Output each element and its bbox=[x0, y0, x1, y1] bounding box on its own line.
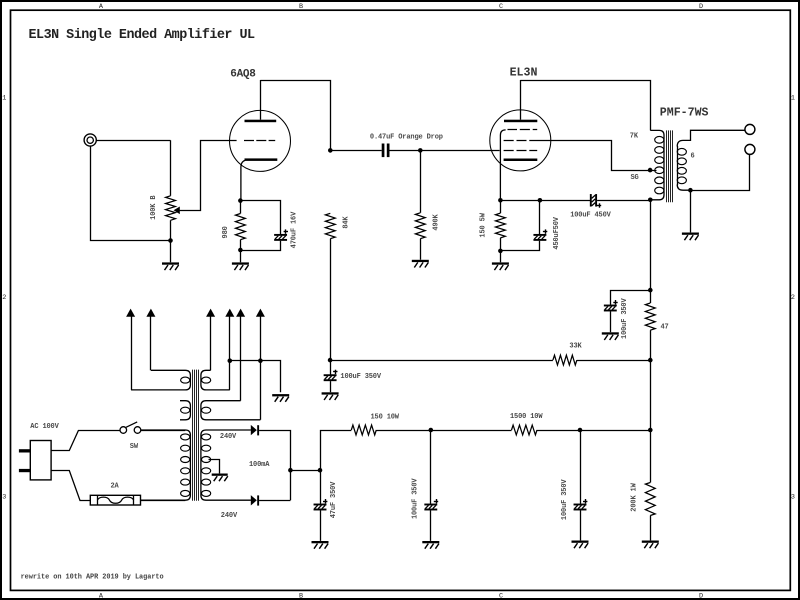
ground center tap bbox=[212, 474, 228, 476]
capacitor C9 0.47uF Orange Drop bbox=[382, 144, 385, 158]
T1 heater winding 2 left (unused stubs) bbox=[180, 401, 190, 420]
ground 490K bbox=[412, 260, 429, 262]
wire EL3N g2 to SG tap bbox=[537, 141, 657, 171]
svg-text:6: 6 bbox=[691, 153, 695, 161]
tube V2 EL3N envelope bbox=[490, 110, 551, 171]
6AQ8 plate bbox=[245, 120, 277, 123]
svg-text:D: D bbox=[699, 593, 703, 600]
wire fuse to T1 primary bottom bbox=[141, 500, 186, 502]
node filter node 3 bbox=[578, 428, 583, 433]
svg-text:D: D bbox=[699, 3, 703, 11]
svg-text:PMF-7WS: PMF-7WS bbox=[660, 106, 709, 119]
heater ground bus bbox=[230, 361, 281, 393]
wire D1 to rectifier node bbox=[259, 431, 290, 501]
svg-text:100uF 450V: 100uF 450V bbox=[570, 211, 611, 219]
resistor R7 33K bbox=[553, 355, 577, 365]
wire secondary bottom to jack bbox=[690, 155, 749, 191]
capacitor C2 450uF50V bbox=[539, 200, 541, 234]
capacitor C3 100uF 350V bbox=[604, 305, 617, 307]
svg-text:100uF 350V: 100uF 350V bbox=[340, 373, 381, 381]
node heater bus b bbox=[258, 358, 263, 363]
svg-text:6AQ8: 6AQ8 bbox=[230, 68, 256, 80]
node coupling junction left bbox=[328, 148, 333, 153]
resistor R2 980 bbox=[240, 201, 242, 214]
wire plug bottom lead to fuse bbox=[51, 471, 90, 501]
wire R9 to node 3 bbox=[537, 430, 650, 432]
svg-text:100K B: 100K B bbox=[150, 195, 158, 220]
svg-text:7K: 7K bbox=[630, 133, 639, 141]
node pot-bottom junction bbox=[168, 238, 173, 243]
node SG tap bbox=[648, 168, 653, 173]
svg-text:1500 10W: 1500 10W bbox=[510, 413, 543, 421]
svg-text:C: C bbox=[499, 593, 503, 600]
node primary bottom bbox=[648, 198, 653, 203]
wire 150 bottom to ground bbox=[500, 238, 502, 262]
svg-text:200K 1W: 200K 1W bbox=[631, 482, 639, 511]
svg-text:EL3N Single Ended Amplifier UL: EL3N Single Ended Amplifier UL bbox=[29, 28, 256, 43]
wire pot bottom to ground bbox=[170, 220, 172, 262]
node EL3N grid junction bbox=[418, 148, 423, 153]
capacitor C4 100uF 350V bbox=[330, 360, 332, 374]
svg-text:0.47uF Orange Drop: 0.47uF Orange Drop bbox=[370, 133, 443, 141]
wire 84K to B+ rail bbox=[330, 239, 332, 360]
ground EL3N cathode bbox=[492, 262, 509, 264]
wire jack to pot top bbox=[96, 140, 170, 142]
resistor R9 1500 10W bbox=[512, 425, 538, 435]
OPT secondary winding bbox=[677, 130, 745, 146]
potentiometer VR1 100K B bbox=[166, 196, 176, 221]
resistor R8 150 10W bbox=[351, 425, 376, 435]
EL3N g1 (dashed) bbox=[504, 150, 514, 152]
svg-text:1: 1 bbox=[2, 95, 6, 103]
capacitor C5 47uF 350V bbox=[320, 470, 322, 504]
T1 primary winding bbox=[141, 430, 191, 500]
HV center tap to ground bbox=[209, 460, 220, 474]
node first filter tap bbox=[318, 468, 323, 473]
heater lead A bbox=[150, 316, 152, 370]
ground heater bus bbox=[272, 394, 289, 396]
wire up to filter rail bbox=[321, 431, 352, 471]
switch SW bbox=[120, 427, 127, 434]
node 6AQ8 cathode junction bbox=[238, 198, 243, 203]
node 980 bottom junction bbox=[238, 248, 243, 253]
6AQ8 cathode lead bbox=[241, 160, 245, 200]
ground 6AQ8 cathode bbox=[232, 262, 249, 264]
resistor R5 150 5W bbox=[500, 200, 502, 213]
wire switch to T1 primary bbox=[141, 430, 185, 432]
resistor R4 490K grid leak bbox=[420, 150, 422, 212]
node rectifier output bbox=[288, 468, 293, 473]
wire grid node to EL3N g1 bbox=[420, 150, 499, 152]
power transformer core bbox=[192, 370, 194, 501]
svg-text:C: C bbox=[499, 3, 503, 11]
output jack bottom bbox=[745, 144, 755, 154]
svg-text:490K: 490K bbox=[433, 213, 441, 230]
wire 6AQ8 plate to coupling junction bbox=[260, 81, 330, 151]
wire jack down to pot bottom junction bbox=[91, 146, 171, 240]
wire to coupling cap bbox=[330, 150, 381, 152]
wire 47 to B+ node bbox=[650, 330, 652, 360]
T1 heater winding 1 right bbox=[201, 370, 230, 390]
tube V1 6AQ8 envelope bbox=[230, 110, 291, 171]
input jack J1 bbox=[84, 134, 96, 146]
wire 980 bottom to ground bbox=[240, 240, 242, 263]
svg-text:EL3N: EL3N bbox=[510, 67, 538, 80]
svg-text:SW: SW bbox=[130, 443, 139, 451]
wire to decoupling cap C3 bbox=[611, 291, 651, 305]
svg-text:470uF 16V: 470uF 16V bbox=[291, 211, 299, 248]
EL3N cathode bbox=[504, 159, 538, 162]
svg-text:150 5W: 150 5W bbox=[479, 212, 487, 237]
ground bleeder bbox=[642, 541, 659, 543]
node 450uF tap bbox=[538, 198, 543, 203]
wire cathode rail to bypass cap bbox=[500, 200, 590, 202]
node 150 bottom junction bbox=[498, 249, 503, 254]
pot wiper arrow bbox=[174, 207, 180, 215]
node driver B+ junction bbox=[328, 358, 333, 363]
svg-text:450uF50V: 450uF50V bbox=[553, 216, 561, 249]
diode D1 bbox=[251, 425, 257, 435]
svg-text:AC 100V: AC 100V bbox=[30, 423, 59, 431]
wire OPT primary bottom down bbox=[650, 200, 652, 303]
svg-text:84K: 84K bbox=[343, 216, 351, 229]
ground input bbox=[162, 262, 179, 264]
resistor R6 47 bbox=[645, 303, 655, 330]
svg-text:2: 2 bbox=[791, 294, 795, 302]
ground C3 bbox=[602, 332, 619, 334]
heater lead F bbox=[260, 316, 262, 419]
svg-text:150 10W: 150 10W bbox=[371, 414, 400, 422]
svg-text:SG: SG bbox=[631, 174, 639, 182]
svg-text:B: B bbox=[299, 3, 303, 11]
T1 HV secondary winding bbox=[201, 430, 251, 500]
wire coupling cap to grid node bbox=[390, 150, 421, 152]
ground C7 bbox=[572, 541, 589, 543]
svg-text:100uF 350V: 100uF 350V bbox=[411, 478, 419, 519]
resistor R10 200K 1W bleeder bbox=[650, 430, 652, 483]
svg-text:2: 2 bbox=[2, 294, 6, 302]
6AQ8 cathode bbox=[245, 158, 278, 161]
svg-text:100uF 350V: 100uF 350V bbox=[561, 479, 569, 520]
svg-text:33K: 33K bbox=[569, 342, 582, 350]
svg-text:47: 47 bbox=[661, 323, 669, 331]
svg-text:3: 3 bbox=[2, 494, 6, 502]
heater lead D bbox=[229, 316, 231, 390]
EL3N plate bbox=[504, 120, 537, 123]
svg-text:240V: 240V bbox=[221, 512, 238, 520]
node B+ junction bbox=[648, 358, 653, 363]
svg-text:980: 980 bbox=[222, 226, 230, 238]
svg-text:47uF 350V: 47uF 350V bbox=[330, 481, 338, 518]
6AQ8 grid (dashed) bbox=[244, 140, 254, 142]
wire rectifier to first filter bbox=[290, 470, 320, 472]
EL3N g3 (dashed) bbox=[508, 129, 518, 131]
node heater bus a bbox=[228, 358, 233, 363]
svg-text:240V: 240V bbox=[220, 433, 237, 441]
wire R8 to node bbox=[376, 430, 511, 432]
wire to bypass cap C1 bbox=[240, 201, 280, 235]
resistor R3 84K bbox=[325, 213, 335, 238]
heater lead C bbox=[210, 316, 212, 370]
T1 heater winding 1 left bbox=[131, 370, 190, 390]
heater lead B bbox=[131, 316, 133, 390]
ground C5 bbox=[312, 541, 329, 543]
OPT primary winding bbox=[650, 130, 664, 199]
EL3N g3-cathode tie and cathode lead bbox=[500, 130, 505, 200]
ground OPT secondary bbox=[682, 233, 699, 235]
node EL3N cathode junction bbox=[498, 198, 503, 203]
capacitor C8 100uF 450V (horizontal) bbox=[590, 194, 592, 207]
AC plug bbox=[30, 441, 51, 480]
svg-text:2A: 2A bbox=[111, 483, 120, 491]
heater lead E bbox=[240, 316, 242, 400]
wire 490K to ground bbox=[420, 239, 422, 260]
capacitor C1 470uF 16V bbox=[274, 234, 287, 236]
ground C4 bbox=[322, 392, 339, 394]
wire D2 to rectifier node bbox=[259, 500, 290, 502]
T1 heater winding 2 right bbox=[201, 401, 261, 420]
wire EL3N plate to OPT primary bbox=[520, 81, 650, 131]
node bleeder tap bbox=[648, 428, 653, 433]
svg-text:1: 1 bbox=[791, 95, 795, 103]
capacitor C6 100uF 350V bbox=[430, 430, 432, 504]
svg-text:3: 3 bbox=[791, 494, 795, 502]
OPT core bbox=[666, 130, 668, 202]
node filter node 2 bbox=[429, 428, 434, 433]
svg-text:rewrite on 10th APR 2019 by La: rewrite on 10th APR 2019 by Lagarto bbox=[21, 573, 164, 581]
wire secondary ground bbox=[690, 190, 692, 232]
node 100uF450V-2 tap bbox=[648, 288, 653, 293]
wire B+ down to filter bbox=[650, 360, 652, 430]
capacitor C7 100uF 350V bbox=[580, 430, 582, 504]
wire B+ rail y360 bbox=[330, 360, 553, 362]
svg-text:100mA: 100mA bbox=[249, 461, 270, 469]
heater arrows bbox=[126, 309, 135, 317]
wire plug top lead to switch bbox=[51, 431, 120, 451]
ground C6 bbox=[422, 541, 439, 543]
fuse F1 2A bbox=[90, 495, 140, 505]
output jack top bbox=[745, 124, 755, 134]
svg-text:B: B bbox=[299, 593, 303, 600]
diode D2 bbox=[251, 495, 257, 505]
EL3N g2 screen (dashed) bbox=[504, 140, 514, 142]
wire wiper to 6AQ8 grid bbox=[180, 141, 237, 211]
node secondary bottom junction bbox=[688, 188, 693, 193]
svg-text:100uF 350V: 100uF 350V bbox=[621, 298, 629, 339]
